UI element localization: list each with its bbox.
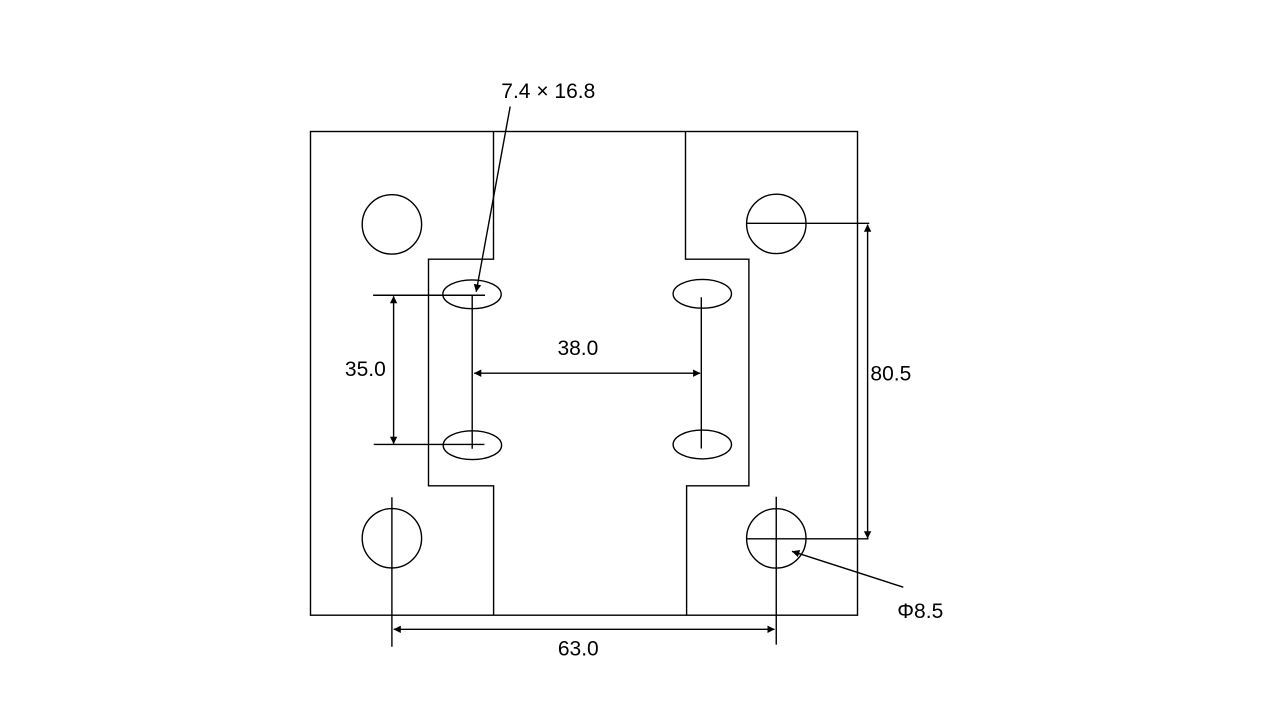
svg-text:Φ8.5: Φ8.5 (897, 600, 943, 623)
svg-text:7.4 × 16.8: 7.4 × 16.8 (501, 80, 595, 103)
svg-text:80.5: 80.5 (870, 362, 911, 385)
svg-text:63.0: 63.0 (558, 638, 599, 661)
svg-text:38.0: 38.0 (557, 337, 598, 360)
svg-text:35.0: 35.0 (345, 358, 386, 381)
